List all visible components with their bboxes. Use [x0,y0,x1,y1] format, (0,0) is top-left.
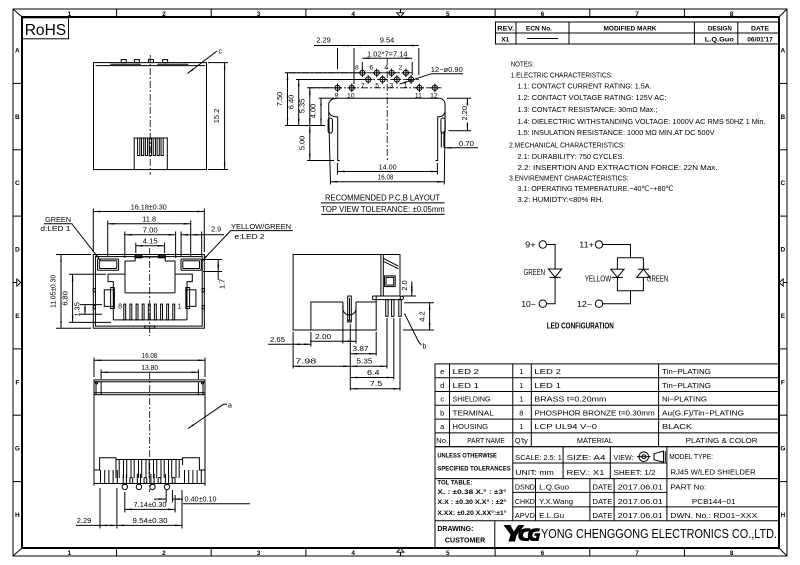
RoHS box [22,18,69,39]
svg-text:c: c [440,395,444,404]
svg-text:9: 9 [335,93,339,100]
diode D1 GREEN [524,268,562,278]
svg-text:7.5: 7.5 [370,381,383,388]
bottom view centerline [149,372,151,492]
svg-text:3: 3 [390,83,394,90]
dim 6.80 [62,274,111,322]
svg-text:7: 7 [361,83,365,90]
svg-text:13.80: 13.80 [141,365,158,372]
svg-text:DWN. No.: RD01−XXX: DWN. No.: RD01−XXX [670,511,757,520]
svg-text:1.5: INSULATION RESISTANCE:: 1.5: INSULATION RESISTANCE: 1000 MΩ MIN.… [518,128,716,137]
svg-text:14.00: 14.00 [379,164,397,171]
svg-text:8: 8 [355,64,359,71]
svg-text:VIEW:: VIEW: [614,453,634,462]
svg-text:3.87: 3.87 [353,346,369,353]
svg-text:GREEN: GREEN [524,268,546,277]
svg-text:CUSTOMER: CUSTOMER [445,536,486,545]
svg-text:D: D [15,247,20,254]
pad row centerlines [289,73,442,88]
svg-text:2.1: DURABILITY: 750 CYCLES: 2.1: DURABILITY: 750 CYCLES. [518,152,625,161]
label YELLOW/GREEN e:LED 2 [202,224,293,261]
svg-text:4: 4 [351,11,355,18]
svg-text:PLATING & COLOR: PLATING & COLOR [686,436,759,445]
svg-text:MODEL TYPE:: MODEL TYPE: [669,452,713,461]
LED terminal 12- [577,300,603,309]
front view centerline [149,248,151,336]
svg-text:3: 3 [257,11,261,18]
svg-text:3.ENVIRENMENT CHARACTERISTICS: 3.ENVIRENMENT CHARACTERISTICS: [509,174,628,183]
svg-text:GREEN: GREEN [45,217,71,224]
svg-text:B: B [781,114,786,121]
svg-text:5: 5 [446,550,450,557]
svg-text:3.1: OPERATING TEMPERATURE.−: 3.1: OPERATING TEMPERATURE.−40℃~+80℃ [518,184,674,193]
dims 2.29 9.54 top [314,37,419,84]
svg-text:SCALE: 2.5: 1: SCALE: 2.5: 1 [515,453,562,462]
svg-text:4.2: 4.2 [419,311,426,322]
svg-text:X. : ±0.38 X.° : ±3°: X. : ±0.38 X.° : ±3° [437,489,507,496]
svg-text:D: D [781,247,786,254]
svg-text:RoHS: RoHS [25,22,66,39]
svg-text:CHKD: CHKD [515,497,536,506]
svg-text:2.29: 2.29 [77,518,92,525]
svg-text:MODIFIED MARK: MODIFIED MARK [604,25,657,32]
svg-text:DESIGN: DESIGN [708,25,732,32]
svg-text:d: d [440,381,444,390]
svg-text:d:LED 1: d:LED 1 [40,226,70,233]
svg-text:MATERIAL: MATERIAL [577,436,613,445]
svg-text:BLACK: BLACK [662,422,692,431]
svg-text:PHOSPHOR BRONZE t=0.30mm: PHOSPHOR BRONZE t=0.30mm [534,408,654,417]
LED terminal 11+ [579,241,602,250]
dim 13.80 [101,365,198,379]
svg-text:2: 2 [162,11,166,18]
svg-text:16.08: 16.08 [142,353,158,360]
svg-text:1.7: 1.7 [219,279,226,289]
svg-text:SIZE: A4: SIZE: A4 [567,453,606,462]
svg-text:H: H [15,512,20,519]
svg-text:A: A [781,48,786,55]
svg-text:Q'ty: Q'ty [515,436,528,445]
svg-text:TOL TABLE:: TOL TABLE: [437,479,472,486]
svg-text:11+: 11+ [579,241,594,250]
svg-text:1: 1 [519,381,523,390]
svg-text:Tin−PLATING: Tin−PLATING [662,367,711,376]
bottom view comb and pins [94,458,205,490]
svg-text:LCP UL94 V−0: LCP UL94 V−0 [534,422,597,431]
diode D2 YELLOW [585,269,624,283]
svg-text:5.35: 5.35 [299,99,306,114]
solder pads 12x [333,64,439,99]
svg-text:DATE: DATE [592,483,612,492]
view angle symbols [637,451,665,462]
contact comb [124,304,175,320]
dim 1.7 [203,260,226,290]
svg-text:1: 1 [404,83,408,90]
svg-text:2.0: 2.0 [402,280,409,291]
svg-text:BRASS t=0.20mm: BRASS t=0.20mm [534,395,606,404]
svg-text:12−: 12− [577,300,592,309]
svg-text:8: 8 [118,304,122,311]
svg-text:2: 2 [399,64,403,71]
svg-text:2.MECHANICAL CHARACTERISTICS:: 2.MECHANICAL CHARACTERISTICS: [509,141,625,150]
dim 16.18 [93,204,204,252]
svg-text:DATE: DATE [592,511,612,520]
svg-text:5.00: 5.00 [299,136,306,151]
svg-text:4: 4 [351,550,355,557]
svg-text:X.X : ±0.30 X.X° : ±2°: X.X : ±0.30 X.X° : ±2° [437,499,507,506]
front view small tabs [93,255,204,328]
led window right [181,259,201,270]
svg-text:SHIELDING: SHIELDING [453,395,491,404]
svg-text:6.4: 6.4 [367,370,380,377]
svg-text:1.02*7=7.14: 1.02*7=7.14 [367,52,408,59]
title block [435,447,779,548]
svg-text:X.XX: ±0.20 X.XX°:±1°: X.XX: ±0.20 X.XX°:±1° [437,510,507,517]
svg-text:APVD: APVD [515,511,536,520]
svg-text:1.35: 1.35 [75,302,82,317]
dim 4.15 [136,238,165,253]
svg-text:E: E [15,313,20,320]
leader 12-dia0.90 [400,67,464,84]
latch right [186,288,196,309]
svg-text:F: F [15,379,19,386]
svg-text:4: 4 [384,64,388,71]
svg-text:1.ELECTRIC CHARACTERISTICS:: 1.ELECTRIC CHARACTERISTICS: [511,70,613,79]
svg-text:4.00: 4.00 [311,104,318,119]
svg-text:1: 1 [519,367,523,376]
dim 1.02*7=7.14 [362,52,412,75]
dim 16.08 bottom [94,353,205,377]
wire D1 to 10- [547,277,556,303]
svg-text:2.29: 2.29 [316,37,331,44]
svg-text:1: 1 [67,550,71,557]
svg-text:8: 8 [519,408,523,417]
dim 0.40 [154,490,250,504]
wire 11+ to pair [603,245,631,258]
svg-text:1: 1 [519,395,523,404]
svg-text:9.54±0.30: 9.54±0.30 [133,518,168,525]
svg-text:b: b [440,408,444,417]
svg-text:HOUSING: HOUSING [453,422,489,431]
captions pcb layout [321,193,445,215]
side view center post [348,296,352,322]
svg-text:C: C [15,180,20,187]
svg-text:16.18±0.30: 16.18±0.30 [131,204,167,211]
svg-text:16.08: 16.08 [378,175,394,182]
YCG logo [504,525,541,542]
svg-text:6: 6 [369,64,373,71]
svg-text:DRAWING:: DRAWING: [437,524,473,533]
svg-text:2.9: 2.9 [211,227,221,234]
svg-text:NOTES:: NOTES: [511,59,534,68]
svg-text:a: a [440,422,445,431]
svg-text:a: a [228,402,232,409]
parallel wires [603,258,644,304]
svg-text:2017.06.01: 2017.06.01 [618,497,663,506]
svg-text:C: C [781,180,786,187]
svg-text:LED 1: LED 1 [534,381,561,390]
notes text block [509,59,765,204]
svg-text:1: 1 [178,304,182,311]
svg-text:Ni−PLATING: Ni−PLATING [662,395,707,404]
svg-text:b: b [423,344,427,351]
dim 1.35 [75,302,102,317]
svg-text:PCB144−01: PCB144−01 [692,497,736,506]
svg-text:5: 5 [375,83,379,90]
svg-text:5.35: 5.35 [356,359,372,366]
leader a [188,402,232,428]
svg-text:DSND: DSND [515,483,536,492]
svg-text:6: 6 [541,550,545,557]
svg-text:RJ45 W/LED SHIELDER: RJ45 W/LED SHIELDER [671,467,757,476]
svg-text:UNIT: mm: UNIT: mm [515,468,554,477]
svg-text:LED CONFIGURATION: LED CONFIGURATION [547,321,614,330]
svg-text:A: A [15,48,20,55]
dim 11.8 [108,217,191,256]
svg-text:7.14±0.30: 7.14±0.30 [134,502,167,509]
svg-text:1.1: CONTACT CURRENT RATING: 1.1: CONTACT CURRENT RATING: 1.5A. [518,82,652,91]
svg-text:0.70: 0.70 [459,141,474,148]
svg-text:12: 12 [430,93,438,100]
svg-text:REV.: REV. [497,25,514,32]
svg-text:7.00: 7.00 [143,228,158,235]
svg-text:5: 5 [446,11,450,18]
svg-text:6: 6 [541,11,545,18]
dims 14.00 16.08 [329,112,445,185]
svg-text:12−ø0.90: 12−ø0.90 [431,67,463,74]
svg-text:E.L.Gu: E.L.Gu [539,511,564,520]
svg-text:SPECIFIED TOLERANCES: SPECIFIED TOLERANCES [437,465,511,472]
svg-text:2017.06.01: 2017.06.01 [618,511,663,520]
pcb layout centerline [386,58,388,162]
svg-text:4.15: 4.15 [143,238,158,245]
right dims 2.20 0.70 [445,98,479,148]
wire 9+ to D1 [547,245,556,270]
svg-text:YONG CHENGGONG ELECTRONICS: YONG CHENGGONG ELECTRONICS CO.,LTD. [541,527,777,541]
svg-text:c: c [219,49,223,56]
svg-text:1.3: CONTACT RESISTANCE: 30: 1.3: CONTACT RESISTANCE: 30mΩ Max.; [518,105,658,114]
svg-text:SHEET: 1/2: SHEET: 1/2 [614,468,656,477]
svg-text:L.Q.Guo: L.Q.Guo [539,483,569,492]
svg-text:GREEN: GREEN [647,274,669,283]
svg-text:2.00: 2.00 [315,334,331,341]
LED terminal 9+ [525,241,546,250]
svg-text:7.98: 7.98 [295,359,316,366]
bottom view body [94,380,205,486]
svg-text:Y.X.Wang: Y.X.Wang [539,497,573,506]
svg-text:1.2: CONTACT VOLTAGE RATING: 1.2: CONTACT VOLTAGE RATING: 125V AC; [518,93,667,102]
leader c [188,49,223,74]
svg-text:2017.06.01: 2017.06.01 [618,483,663,492]
svg-text:7: 7 [635,11,639,18]
svg-text:8: 8 [730,550,734,557]
dim 7.14 [125,492,175,513]
svg-text:ECN No.: ECN No. [526,25,552,32]
svg-text:DATE: DATE [751,25,769,32]
revision table [496,22,780,44]
dim 2.0 [402,280,416,296]
svg-text:F: F [781,379,785,386]
svg-text:11: 11 [415,93,422,100]
svg-text:2: 2 [162,550,166,557]
svg-text:1: 1 [519,422,523,431]
dims 7.00 2.9 [125,227,224,258]
svg-text:0.40±0.10: 0.40±0.10 [185,497,217,504]
svg-text:RECOMMENDED P.C.B LAYOUT: RECOMMENDED P.C.B LAYOUT [325,193,441,203]
parts list table [435,364,779,447]
svg-text:TOP VIEW TOLERANCE: ±0.05mm: TOP VIEW TOLERANCE: ±0.05mm [321,204,445,214]
svg-text:No.: No. [436,436,448,445]
svg-text:E: E [781,313,786,320]
svg-text:Au(G.F)/Tin−PLATING: Au(G.F)/Tin−PLATING [662,408,744,417]
side view pins [386,296,404,316]
svg-text:X1: X1 [501,36,509,43]
svg-text:2.2: INSERTION AND EXTRACTI: 2.2: INSERTION AND EXTRACTION FORCE: 22N… [518,163,718,172]
svg-text:11.05±0.30: 11.05±0.30 [50,275,57,308]
svg-text:9+: 9+ [525,241,536,250]
svg-text:2.20: 2.20 [462,106,469,121]
top view centerline [149,55,151,175]
side view body [293,255,401,331]
svg-text:e: e [440,367,444,376]
left vertical dims [277,73,364,161]
dim 15.2 [208,63,228,170]
leader b [405,314,427,351]
svg-text:8: 8 [730,11,734,18]
svg-text:10: 10 [347,93,355,100]
diode D3 GREEN [637,269,669,283]
latch left [104,288,114,309]
pcb layout outline [328,98,445,160]
svg-text:6.40: 6.40 [288,95,295,110]
label GREEN d:LED 1 [40,217,100,261]
side bottom dims [268,305,400,391]
svg-text:7: 7 [635,550,639,557]
svg-text:1.4: DIELECTRIC WITHSTANDING: 1.4: DIELECTRIC WITHSTANDING VOLTAGE: 10… [518,117,766,126]
svg-text:TERMINAL: TERMINAL [453,408,494,417]
svg-text:06/01'17: 06/01'17 [747,36,773,43]
svg-text:PART No:: PART No: [670,483,706,492]
svg-text:3.2: HUMIDTY:<80% RH.: 3.2: HUMIDTY:<80% RH. [518,195,604,204]
svg-text:e:LED 2: e:LED 2 [235,234,265,241]
svg-text:UNLESS OTHERWISE: UNLESS OTHERWISE [437,452,497,459]
dim 11.05 [50,255,91,329]
front view body [93,255,204,329]
svg-text:6.80: 6.80 [62,291,69,306]
svg-text:YELLOW/GREEN: YELLOW/GREEN [231,224,291,231]
svg-text:B: B [15,114,20,121]
svg-text:G: G [780,446,785,453]
dim 4.2 [403,303,434,330]
svg-text:10−: 10− [521,300,536,309]
svg-text:LED 2: LED 2 [534,367,561,376]
svg-text:15.2: 15.2 [214,109,221,124]
svg-text:YELLOW: YELLOW [585,274,612,283]
svg-text:H: H [781,512,786,519]
svg-text:G: G [15,446,20,453]
top view body [94,60,207,170]
svg-text:1: 1 [67,11,71,18]
svg-text:3: 3 [257,550,261,557]
svg-text:L.Q.Guo: L.Q.Guo [705,36,734,43]
svg-text:2.65: 2.65 [270,337,285,344]
svg-text:9.54: 9.54 [380,37,395,44]
socket cavity [108,257,192,320]
svg-text:DATE: DATE [592,497,612,506]
svg-text:11.8: 11.8 [142,217,156,224]
svg-text:7.50: 7.50 [277,92,284,107]
svg-text:LED 1: LED 1 [453,381,480,390]
svg-text:REV.: X1: REV.: X1 [567,468,605,477]
led window left [98,259,119,270]
svg-text:LED 2: LED 2 [453,367,480,376]
svg-text:PART NAME: PART NAME [467,436,505,445]
LED terminal 10- [521,300,546,309]
svg-text:Tin−PLATING: Tin−PLATING [662,381,711,390]
dims 2.29 9.54 bottom [76,488,182,529]
